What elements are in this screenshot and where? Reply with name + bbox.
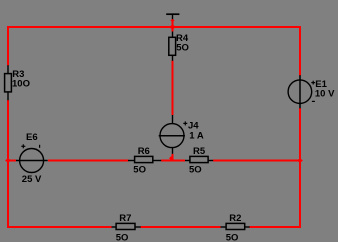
body R7 [116, 223, 135, 229]
junction middle wire right node [297, 158, 303, 163]
wire middle: left wire stub to E6 [7, 160, 16, 162]
wire middle: R6 to R5 through J4 node [161, 160, 185, 162]
minus sign E1 [312, 100, 315, 102]
wire middle: R5 to right wire [213, 160, 300, 162]
body E6 circle [20, 149, 44, 173]
minus sign E6 [39, 145, 41, 148]
wire J4 to middle wire [172, 154, 174, 161]
pin R3 top [7, 65, 9, 73]
junction middle wire / J4 column node [169, 156, 173, 160]
body R4 [169, 37, 176, 55]
voltage source E6 [16, 132, 48, 185]
body R5 [190, 156, 208, 162]
svg-text:5O: 5O [176, 42, 189, 53]
voltage source E1 [288, 75, 335, 108]
svg-text:10O: 10O [12, 78, 30, 89]
resistor R7 [112, 213, 141, 242]
wire left upper segment (top corner to R3) [7, 26, 9, 66]
plus sign E6 [21, 145, 25, 147]
wire bottom left segment (corner to R7) [7, 226, 112, 228]
svg-text:E6: E6 [26, 132, 38, 143]
resistor R5 [185, 146, 213, 176]
body R3 [5, 74, 12, 92]
pin J4 top [172, 115, 174, 124]
pin J4 bottom [172, 148, 174, 154]
body J4 circle [160, 124, 184, 148]
junction at ground pin connection [171, 19, 175, 23]
pin R5 left [185, 160, 190, 162]
body R2 [226, 223, 245, 229]
plus sign E1 [311, 82, 315, 84]
junction middle wire left node [5, 158, 11, 163]
body E1 circle [288, 80, 312, 104]
svg-text:25 V: 25 V [22, 174, 42, 185]
svg-text:R2: R2 [229, 213, 241, 224]
wire bottom middle segment (R7 to R2) [141, 226, 221, 228]
pin R7 left [112, 226, 117, 228]
resistor R2 [221, 213, 250, 242]
pins E6 through-line [16, 160, 48, 162]
pin R6 right [153, 160, 161, 162]
pin R4 bottom [172, 55, 174, 61]
svg-text:5O: 5O [189, 165, 202, 176]
pin R3 bottom [7, 92, 9, 100]
svg-text:5O: 5O [133, 165, 146, 176]
wire middle: E6 to R6 [48, 160, 129, 162]
wire left lower segment (R3 to bottom corner) [7, 100, 9, 228]
junction top wire / ground column node [169, 25, 176, 30]
pin R6 left [128, 160, 135, 162]
plus sign J4 [183, 122, 187, 124]
wire bottom right segment (R2 to corner) [250, 226, 302, 228]
pin R5 right [208, 160, 213, 162]
wire right upper segment (top corner to E1) [299, 26, 301, 76]
body J4 crossbar [159, 135, 185, 137]
wire top net: ground column to corners [7, 26, 301, 28]
resistor R6 [128, 146, 161, 176]
body R6 [135, 156, 153, 162]
svg-text:R5: R5 [193, 146, 206, 157]
svg-text:10 V: 10 V [315, 88, 335, 99]
svg-text:R7: R7 [119, 213, 131, 224]
wire ground pin to top wire and R4 [172, 20, 174, 32]
pin R7 right [135, 226, 141, 228]
ground [166, 14, 179, 19]
resistor R3 [5, 65, 30, 100]
pin R4 top [172, 32, 174, 38]
svg-text:R6: R6 [138, 146, 150, 157]
svg-text:J4: J4 [188, 120, 199, 131]
pin R2 right [245, 226, 250, 228]
pins E1 through-line [299, 75, 301, 108]
pin R2 left [221, 226, 227, 228]
svg-text:5O: 5O [116, 232, 129, 242]
wire right lower segment (E1 to bottom corner) [299, 108, 301, 228]
resistor R4 [169, 32, 189, 61]
svg-text:5O: 5O [226, 232, 239, 242]
current source J4 [159, 115, 204, 154]
wire R4 to J4 [172, 61, 174, 116]
svg-text:1 A: 1 A [189, 131, 204, 142]
